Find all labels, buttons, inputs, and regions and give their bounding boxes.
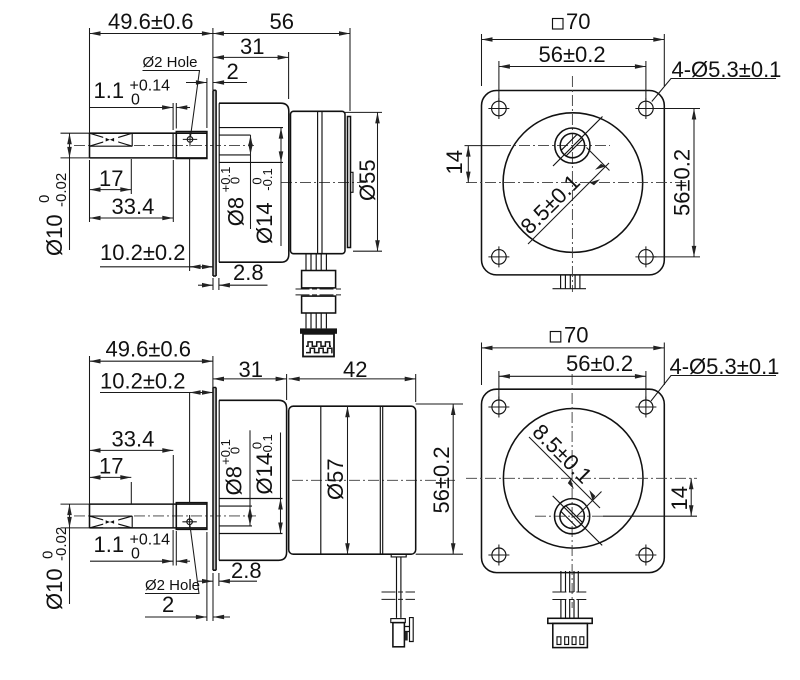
svg-text:-0.02: -0.02: [53, 527, 70, 561]
connector comb row 1: [306, 342, 331, 346]
diagonal dimension line 8.5: [528, 163, 609, 244]
connector latch: [410, 618, 414, 642]
lead wires bottom: [561, 571, 578, 592]
motor body circle: [503, 113, 643, 253]
cable break symbol: [552, 592, 586, 600]
svg-text:Ø14: Ø14: [252, 453, 277, 495]
svg-text:31: 31: [239, 357, 263, 382]
flat center mark: [103, 135, 118, 145]
svg-text:49.6±0.6: 49.6±0.6: [108, 9, 193, 34]
svg-text:33.4: 33.4: [112, 427, 155, 452]
svg-text:10.2±0.2: 10.2±0.2: [100, 240, 185, 265]
dim Ø14 0/-0.1: [280, 128, 282, 163]
svg-text:49.6±0.6: 49.6±0.6: [106, 337, 191, 362]
shaft flat band: [90, 133, 133, 146]
gearbox housing: [219, 400, 287, 560]
horizontal centerline: [466, 477, 697, 479]
cable break symbol: [296, 289, 342, 295]
perpendicular extension from shaft: [587, 148, 610, 171]
svg-text:Ø55: Ø55: [355, 159, 380, 201]
motor axis centerline: [281, 181, 366, 183]
flat center mark: [103, 517, 118, 527]
gearbox housing: [219, 103, 289, 262]
cable cut line: [553, 288, 587, 290]
latch dark detail: [405, 632, 408, 641]
horizontal centerline: [466, 182, 689, 184]
Ø2 cross hole: [187, 137, 193, 143]
bearing bump: [351, 172, 354, 192]
svg-text:56±0.2: 56±0.2: [429, 446, 454, 513]
dim Ø10 0/-0.02: [61, 503, 90, 505]
svg-text:2: 2: [162, 592, 174, 617]
connector body: [553, 623, 588, 647]
cable wire: [397, 557, 401, 618]
motor can: [291, 111, 346, 253]
lead wires bottom: [561, 275, 580, 289]
latch bridge: [404, 627, 409, 632]
lead wires 2: [306, 313, 326, 328]
svg-text:14: 14: [442, 150, 467, 174]
mounting hole bottom-left: [492, 548, 506, 562]
hub: [176, 132, 207, 159]
svg-text:42: 42: [343, 357, 367, 382]
svg-text:70: 70: [564, 323, 588, 348]
lead wires: [306, 254, 326, 270]
mounting hole top-left: [492, 101, 507, 116]
shaft Ø10 circle: [560, 133, 584, 157]
hub: [176, 503, 207, 530]
can seam lines: [318, 111, 322, 253]
connector body: [393, 623, 405, 647]
svg-text:33.4: 33.4: [112, 194, 155, 219]
can seam lines: [321, 406, 383, 554]
arrows 8.5: [568, 479, 574, 490]
svg-text:Ø14: Ø14: [252, 202, 277, 244]
connector comb row 2: [306, 348, 332, 352]
svg-text:56: 56: [270, 9, 294, 34]
svg-text:Ø8: Ø8: [223, 197, 248, 226]
svg-text:56±0.2: 56±0.2: [566, 351, 633, 376]
mounting hole bottom-right: [639, 548, 653, 562]
shaft centerline: [74, 515, 90, 517]
svg-text:Ø8: Ø8: [222, 466, 247, 495]
motor body circle: [503, 409, 643, 549]
flat diagonal line through center: [553, 117, 603, 167]
connector collar (black): [300, 328, 337, 333]
flange square: [482, 91, 665, 275]
dim □70: [553, 19, 564, 30]
connector housing: [303, 334, 334, 357]
svg-text:14: 14: [667, 486, 692, 510]
shaft Ø10: [90, 504, 208, 528]
svg-text:56±0.2: 56±0.2: [670, 149, 695, 216]
shaft centerline horizontal: [535, 515, 603, 517]
svg-text:1.1: 1.1: [94, 532, 125, 557]
flat cross marking: [90, 133, 133, 146]
mounting hole bottom-left: [492, 250, 507, 265]
connector pin 1: [557, 637, 561, 645]
svg-text:17: 17: [99, 166, 123, 191]
mounting hole top-right: [639, 101, 654, 116]
svg-text:2: 2: [227, 59, 239, 84]
svg-text:31: 31: [240, 34, 264, 59]
shaft boss Ø14 circle: [555, 499, 590, 534]
dim Ø55: [345, 111, 382, 113]
dim □70: [550, 332, 561, 343]
svg-text:0: 0: [228, 177, 243, 184]
svg-text:0: 0: [228, 447, 243, 454]
motor axis centerline: [292, 479, 457, 481]
svg-text:2.8: 2.8: [233, 260, 264, 285]
shaft flat chords: [561, 506, 583, 528]
flange plate: [213, 90, 216, 276]
gearbox bore Ø8 lines: [219, 135, 251, 155]
svg-text:Ø2 Hole: Ø2 Hole: [143, 54, 198, 71]
connector collar: [391, 619, 406, 623]
connector pin 2: [565, 637, 569, 645]
svg-text:0: 0: [131, 546, 140, 563]
svg-text:1.1: 1.1: [94, 78, 125, 103]
vertical centerline: [571, 374, 573, 608]
arrows 8.5: [590, 179, 601, 185]
shaft centerline horizontal: [465, 145, 501, 147]
perpendicular extension from shaft: [577, 492, 602, 517]
cable exit nub: [391, 554, 406, 557]
flange plate: [213, 388, 216, 571]
dim Ø8 +0.1/0: [250, 135, 252, 155]
svg-text:56±0.2: 56±0.2: [539, 42, 606, 67]
gearbox bore Ø8 lines: [219, 506, 252, 526]
svg-text:-0.1: -0.1: [260, 168, 275, 190]
svg-text:10.2±0.2: 10.2±0.2: [100, 369, 185, 394]
gearbox bore Ø14 lines: [219, 128, 283, 163]
vertical centerline: [571, 76, 573, 292]
shaft step lines (1.1 groove): [173, 504, 176, 528]
motor can: [289, 406, 416, 554]
flange square: [482, 389, 665, 572]
shaft flat chords: [561, 134, 583, 156]
svg-text:2.8: 2.8: [231, 558, 262, 583]
connector collar: [548, 618, 592, 623]
dim Ø10 0/-0.02: [61, 132, 90, 134]
shaft Ø10: [90, 133, 208, 158]
shaft centerline: [74, 145, 90, 147]
svg-text:70: 70: [566, 9, 590, 34]
mounting hole top-left: [492, 400, 506, 414]
gearbox bore Ø14 lines: [219, 499, 283, 534]
shaft boss Ø14 circle: [555, 128, 590, 163]
svg-text:Ø57: Ø57: [323, 458, 348, 500]
svg-text:-0.02: -0.02: [53, 173, 70, 207]
mounting hole top-right: [639, 400, 653, 414]
svg-text:0: 0: [36, 195, 53, 203]
svg-text:Ø10: Ø10: [42, 568, 67, 610]
mounting hole bottom-right: [639, 250, 654, 265]
dim Ø57: [347, 406, 349, 554]
lead wires 2: [561, 600, 578, 619]
dim Ø14 0/-0.1: [280, 499, 282, 534]
Ø2 cross hole: [187, 519, 193, 525]
diagonal dimension line 8.5: [529, 437, 600, 508]
flat cross marking: [90, 516, 133, 528]
connector block 1: [302, 271, 336, 288]
svg-text:Ø10: Ø10: [42, 214, 67, 256]
connector pin 3: [572, 637, 576, 645]
connector block 2: [302, 296, 336, 313]
end cap: [348, 117, 351, 248]
cable break symbol: [382, 592, 416, 599]
shaft Ø10 circle: [560, 504, 584, 528]
flat diagonal line through center: [553, 496, 603, 546]
shaft step lines (1.1 groove): [173, 133, 176, 158]
dim Ø8 +0.1/0: [249, 506, 251, 526]
svg-text:0: 0: [131, 92, 140, 109]
shaft flat band: [90, 516, 133, 528]
svg-text:17: 17: [99, 454, 123, 479]
connector pin 4: [580, 637, 584, 645]
svg-text:-0.1: -0.1: [260, 434, 275, 456]
